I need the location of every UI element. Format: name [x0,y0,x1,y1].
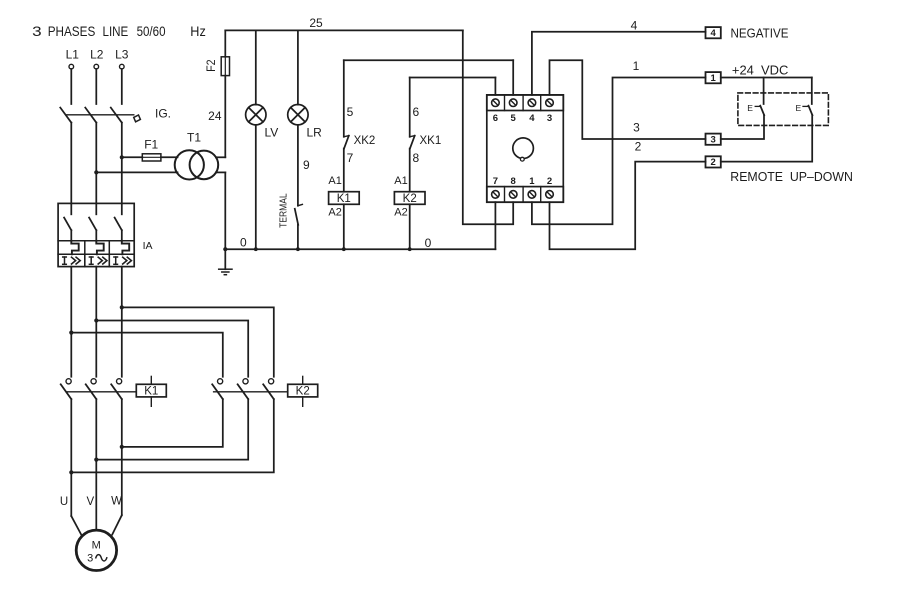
wire T7 to rail0 [494,202,496,249]
coil K2 [394,192,425,205]
breaker pole 3 in IA [115,203,130,254]
relay U1 bottom terminal strip [487,187,564,203]
wire L3 lead to IG [121,69,123,104]
wire L2 to K2 pole2 [96,321,248,377]
node junction L1 feed [69,331,73,335]
wire L1 lead to IG [70,69,72,104]
contactor K1 box [136,376,166,406]
wire L2 to T1 [96,171,177,173]
label I&gt;&gt; cell 2 [89,257,107,264]
wire 1: T1 to box1 [532,78,706,225]
svg-text:TERMAL: TERMAL [278,193,290,228]
wire T1 secondary bottom [216,171,225,173]
svg-text:LINE: LINE [103,24,129,39]
screw terminal top x=531.9 [528,99,536,107]
svg-text:K2: K2 [296,386,310,398]
wire K2 branch upper [409,78,411,137]
screw terminal top x=495.4 [492,99,500,107]
wire rail 25 [225,29,462,31]
svg-text:50/60: 50/60 [137,24,166,39]
svg-text:A2: A2 [394,206,407,218]
svg-text:7: 7 [347,151,354,165]
title: 3 PHASES LINE 50/60 Hz [32,24,206,39]
svg-text:A2: A2 [328,206,341,218]
svg-text:K1: K1 [337,193,351,205]
wire K2 pole3 to U [71,399,273,472]
svg-text:XK2: XK2 [354,135,376,147]
node LV/rail0 junction [254,247,258,251]
svg-text:5: 5 [347,105,354,119]
node junction V return [94,458,98,462]
wire F1 to T1 [161,156,178,158]
svg-text:F1: F1 [144,138,158,152]
label I&gt;&gt; cell 1 [63,257,80,264]
node junction L2/T1 [94,170,98,174]
wire TERMAL to rail0 [297,225,299,249]
wire rail25 to F2 [224,30,226,56]
lamp LR [288,105,308,125]
terminal block 4 [706,27,721,38]
svg-text:M: M [92,539,101,551]
terminal block 1 [706,72,721,83]
svg-text:8: 8 [413,151,420,165]
wire T6 stub [494,78,496,95]
pin labels 6 5 4 3 [493,113,552,124]
label 3-phase wave [87,553,107,565]
svg-text:1: 1 [529,176,535,187]
svg-text:8: 8 [511,176,516,187]
wire K1 pole3 to motor W [121,399,123,515]
wire 2: T2 to box2 [550,162,706,250]
svg-text:W: W [111,496,122,508]
wire T5 stub [512,60,514,95]
svg-text:0: 0 [425,236,432,250]
svg-text:4: 4 [710,28,716,39]
pushbutton E1 (UP) [747,78,764,116]
wire XK1 to K2 coil [409,149,411,192]
svg-text:2: 2 [710,157,715,168]
wire L3 IG to IA [121,123,123,204]
wire K1 pole2 to motor V [95,399,97,530]
svg-text:E: E [796,103,802,113]
wire F2 to T1 [224,76,226,158]
pushbutton E2 (DOWN) [796,78,813,116]
svg-text:E: E [747,103,753,113]
wire E1 to box3 [721,115,764,139]
wire K2 pole1 to W [122,399,223,447]
node junction L3 feed [120,305,124,309]
svg-text:U: U [60,496,68,508]
wire rail 0 [225,248,495,250]
ground [219,249,232,275]
wire 5: K1 branch to relay T5 [344,59,513,61]
node TERMAL/rail0 junction [296,247,300,251]
terminal block 2 [706,156,721,167]
svg-text:1: 1 [710,73,716,84]
terminal block 3 [706,134,721,145]
wire K1 branch upper [343,60,345,137]
svg-text:9: 9 [303,158,310,172]
node L1 terminal [69,64,74,69]
svg-text:6: 6 [413,105,420,119]
svg-text:V: V [86,496,94,508]
wire L1 IG to IA [70,123,72,204]
wire rail25 to LR [297,30,299,104]
svg-text:F2: F2 [204,59,218,72]
wire L2 lead to IG [95,69,97,104]
wire L2 IA to K1 contact [95,267,97,377]
svg-text:2: 2 [547,176,552,187]
wire T1 bottom to rail 0 [224,172,226,249]
wire L1 to K2 pole1 [71,333,223,377]
svg-text:L3: L3 [115,48,129,62]
svg-text:NEGATIVE: NEGATIVE [731,26,789,40]
relay U1 top terminal strip [487,95,564,111]
svg-text:6: 6 [493,113,498,124]
wire 4: T4 to box4 [532,32,706,95]
svg-text:24: 24 [208,109,222,123]
contactor K2 box [288,376,318,406]
node L2 terminal [94,64,99,69]
wire L3 IA to K1 contact [121,267,123,377]
svg-text:PHASES: PHASES [48,24,96,39]
svg-text:4: 4 [529,113,535,124]
wire L3 to K2 pole3 [122,307,274,376]
wire L2 IG to IA [95,123,97,204]
svg-text:2: 2 [635,139,642,153]
svg-text:Hz: Hz [190,24,206,39]
node L3 terminal [120,64,125,69]
wire K1 pole1 to motor U [70,399,72,516]
svg-text:XK1: XK1 [420,135,442,147]
screw terminal bottom x=495.4 [492,191,500,199]
svg-text:3: 3 [32,24,42,39]
svg-text:IG.: IG. [155,107,171,121]
transformer T1 [175,150,219,179]
svg-text:5: 5 [511,113,517,124]
wire T8 to rail25 [463,30,513,224]
svg-text:3: 3 [710,134,715,145]
svg-text:3: 3 [547,113,552,124]
screw terminal bottom x=531.9 [528,191,536,199]
fuse F1 [142,154,161,161]
wire L1 IA to K1 contact [70,267,72,377]
contact XK2 [344,136,349,149]
overload relay IA body [58,203,134,266]
relay module U1 body [487,95,564,202]
wire LV to rail 0 [255,125,257,249]
svg-text:L1: L1 [66,48,80,62]
svg-text:A1: A1 [394,175,407,187]
contactor K2 contacts [212,379,288,399]
relay U1 indicator notch [520,157,524,161]
node junction W return [120,445,124,449]
lamp LV [246,105,266,125]
node junction U return [69,470,73,474]
svg-text:REMOTE UP–DOWN: REMOTE UP–DOWN [730,170,853,184]
breaker pole 1 in IA [64,203,79,254]
wire XK2 to K1 coil [343,149,345,192]
screw terminal top x=513.2 [509,99,517,107]
svg-text:3: 3 [87,553,93,565]
wire T1 secondary top [216,156,225,158]
svg-text:K2: K2 [403,193,417,205]
screw terminal top x=549.5 [546,99,554,107]
pin labels 7 8 1 2 [493,176,552,187]
node junction L2 feed [94,318,98,322]
svg-text:IA: IA [143,240,153,252]
svg-text:T1: T1 [187,131,201,145]
svg-text:3: 3 [633,120,640,134]
motor M [76,530,116,570]
svg-text:LR: LR [307,126,323,140]
svg-text:4: 4 [631,18,638,32]
svg-text:LV: LV [265,126,279,140]
screw terminal bottom x=513.2 [509,191,517,199]
svg-text:1: 1 [633,59,640,73]
wire 6: K2 branch to relay T6 [410,77,496,79]
wire rail25 to LV [255,30,257,104]
svg-text:7: 7 [493,176,498,187]
fuse F2 [221,57,229,76]
switch IG (3-pole disconnect) [60,108,140,123]
overload IA divider lines [58,241,134,267]
contact XK1 [410,136,415,149]
wire W slant to motor [112,515,122,534]
node ground junction [223,247,227,251]
svg-text:K1: K1 [144,386,158,398]
svg-text:L2: L2 [90,48,104,62]
node K1/rail0 junction [342,247,346,251]
node K2/rail0 junction [408,247,412,251]
wire 3: T3 to box3 [550,60,706,139]
switch TERMAL contact [295,204,303,224]
wire box1 to remote [721,77,812,79]
wire K2 coil to rail0 [409,204,411,249]
screw terminal bottom x=549.5 [546,191,554,199]
coil K1 [329,192,360,205]
wire E2 to box2 [721,115,812,161]
wire L3 to F1 [122,156,143,158]
svg-text:A1: A1 [328,175,341,187]
wire K2 pole2 to V [96,399,248,460]
svg-text:25: 25 [309,16,323,30]
wire K1 coil to rail0 [343,204,345,249]
remote enclosure (dashed) [738,93,829,126]
breaker pole 2 in IA [89,203,104,254]
wire LR to TERMAL [297,125,299,206]
contactor K1 contacts [61,379,137,399]
relay U1 indicator circle [513,138,534,159]
label I&gt;&gt; cell 3 [114,257,131,264]
node junction L3/F1 [120,155,124,159]
svg-text:+24 VDC: +24 VDC [732,63,789,77]
wire U slant to motor [71,516,81,535]
svg-text:0: 0 [240,236,247,250]
